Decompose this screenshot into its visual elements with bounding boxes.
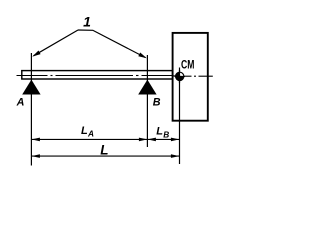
- svg-text:1: 1: [83, 13, 91, 29]
- svg-text:L: L: [100, 142, 108, 157]
- svg-text:CM: CM: [181, 59, 194, 72]
- svg-text:A: A: [87, 129, 94, 139]
- svg-text:B: B: [153, 97, 161, 109]
- svg-text:B: B: [163, 130, 169, 140]
- svg-text:L: L: [156, 126, 163, 138]
- svg-text:A: A: [16, 97, 25, 109]
- svg-text:L: L: [81, 125, 88, 137]
